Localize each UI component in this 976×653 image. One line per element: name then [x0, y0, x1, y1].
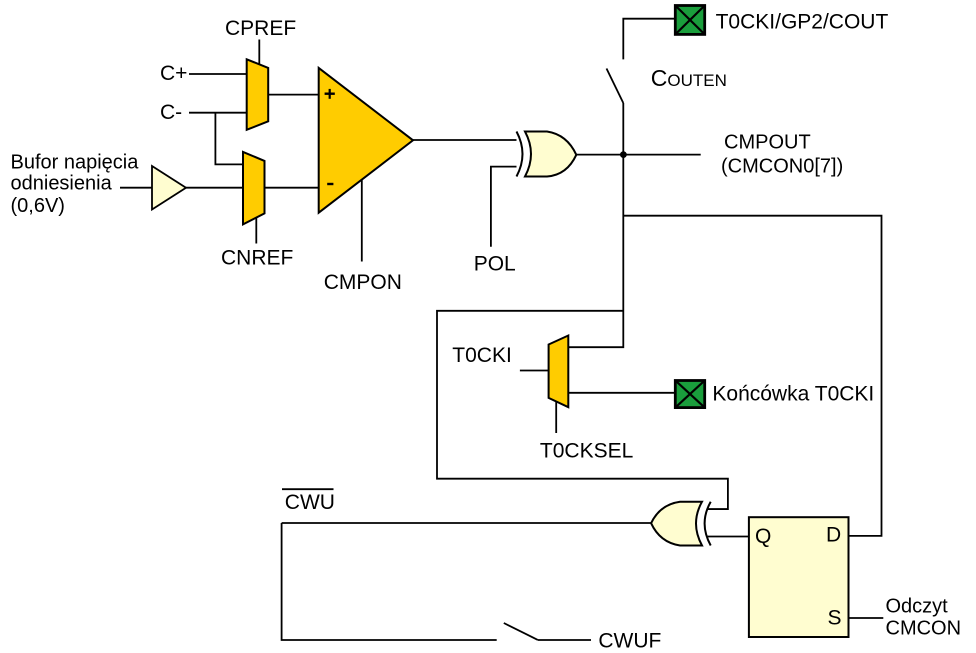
node junction dot	[620, 151, 627, 158]
mux CNREF	[243, 152, 265, 225]
svg-text:S: S	[828, 606, 842, 629]
label minus	[327, 183, 333, 185]
xor gate 1 body	[525, 132, 576, 177]
svg-text:T0CKI/GP2/COUT: T0CKI/GP2/COUT	[716, 11, 889, 34]
xor gate 2 body	[651, 502, 702, 546]
wire branch to D flip-flop	[623, 216, 881, 536]
svg-text:CMPON: CMPON	[324, 271, 402, 294]
svg-text:odniesienia: odniesienia	[11, 172, 113, 194]
wire mux to pin T0CKI	[568, 392, 674, 394]
mux T0CKSEL	[549, 336, 569, 408]
wire CNREF select	[255, 218, 257, 244]
wire T0CKI input	[520, 370, 549, 372]
svg-text:CMPOUT: CMPOUT	[724, 132, 811, 154]
svg-text:Końcówka T0CKI: Końcówka T0CKI	[712, 382, 874, 405]
switch COUTEN blade	[607, 69, 624, 104]
svg-text:C+: C+	[160, 62, 187, 85]
wire xor1 output	[576, 154, 700, 156]
svg-text:Odczyt: Odczyt	[886, 595, 949, 617]
wire S output	[849, 617, 884, 619]
wire CPREF mux out to comparator plus	[268, 94, 319, 96]
svg-text:POL: POL	[474, 253, 516, 276]
wire comparator output to xor	[413, 139, 517, 141]
wire xor2 top input	[707, 508, 728, 510]
xor gate 2 input arc	[705, 502, 711, 546]
label plus	[325, 89, 335, 99]
wire CMPON select	[361, 180, 363, 262]
wire CWU to xor2 output	[282, 522, 651, 524]
svg-text:(0,6V): (0,6V)	[11, 195, 65, 217]
wire CWUF right segment	[538, 639, 591, 641]
wire C- input	[189, 112, 247, 114]
comparator triangle	[319, 68, 413, 213]
svg-text:Bufor napięcia: Bufor napięcia	[11, 152, 140, 174]
buffer 0.6V triangle	[152, 166, 186, 210]
wire C- branch down	[215, 113, 243, 165]
switch CWUF blade	[504, 623, 538, 640]
wire C+ input	[189, 73, 247, 75]
svg-text:D: D	[826, 524, 841, 547]
wire T0CKSEL select	[555, 402, 557, 434]
svg-text:CNREF: CNREF	[221, 247, 293, 270]
wire CWU down and along bottom	[282, 523, 497, 640]
wire routing box	[437, 311, 728, 509]
svg-text:CWUF: CWUF	[598, 629, 661, 652]
svg-text:Q: Q	[755, 525, 771, 548]
svg-text:T0CKI: T0CKI	[452, 344, 512, 367]
flip-flop box	[749, 517, 849, 637]
pin T0CKI/GP2/COUT green box	[675, 6, 704, 35]
pin Koncowka T0CKI green box	[675, 381, 704, 408]
svg-text:CPREF: CPREF	[225, 17, 296, 40]
wire xor2 bottom input from Q	[708, 536, 750, 538]
xor gate 1 input arc	[517, 132, 523, 177]
svg-text:C-: C-	[160, 101, 182, 124]
svg-text:CWU: CWU	[285, 491, 335, 514]
svg-text:CMCON: CMCON	[886, 617, 962, 639]
wire junction down to T0CKI mux	[568, 155, 623, 348]
wire CNREF mux out to comparator minus	[265, 187, 319, 189]
wire buffer input	[120, 187, 152, 189]
wire junction up to switch	[622, 103, 624, 155]
mux CPREF	[247, 59, 269, 130]
wire CPREF select	[258, 40, 260, 65]
svg-text:T0CKSEL: T0CKSEL	[540, 439, 633, 462]
wire POL	[491, 167, 517, 247]
svg-text:(CMCON0[7]): (CMCON0[7])	[721, 156, 843, 178]
wire buffer to CNREF mux	[186, 187, 243, 189]
wire switch top to pin	[623, 19, 674, 60]
